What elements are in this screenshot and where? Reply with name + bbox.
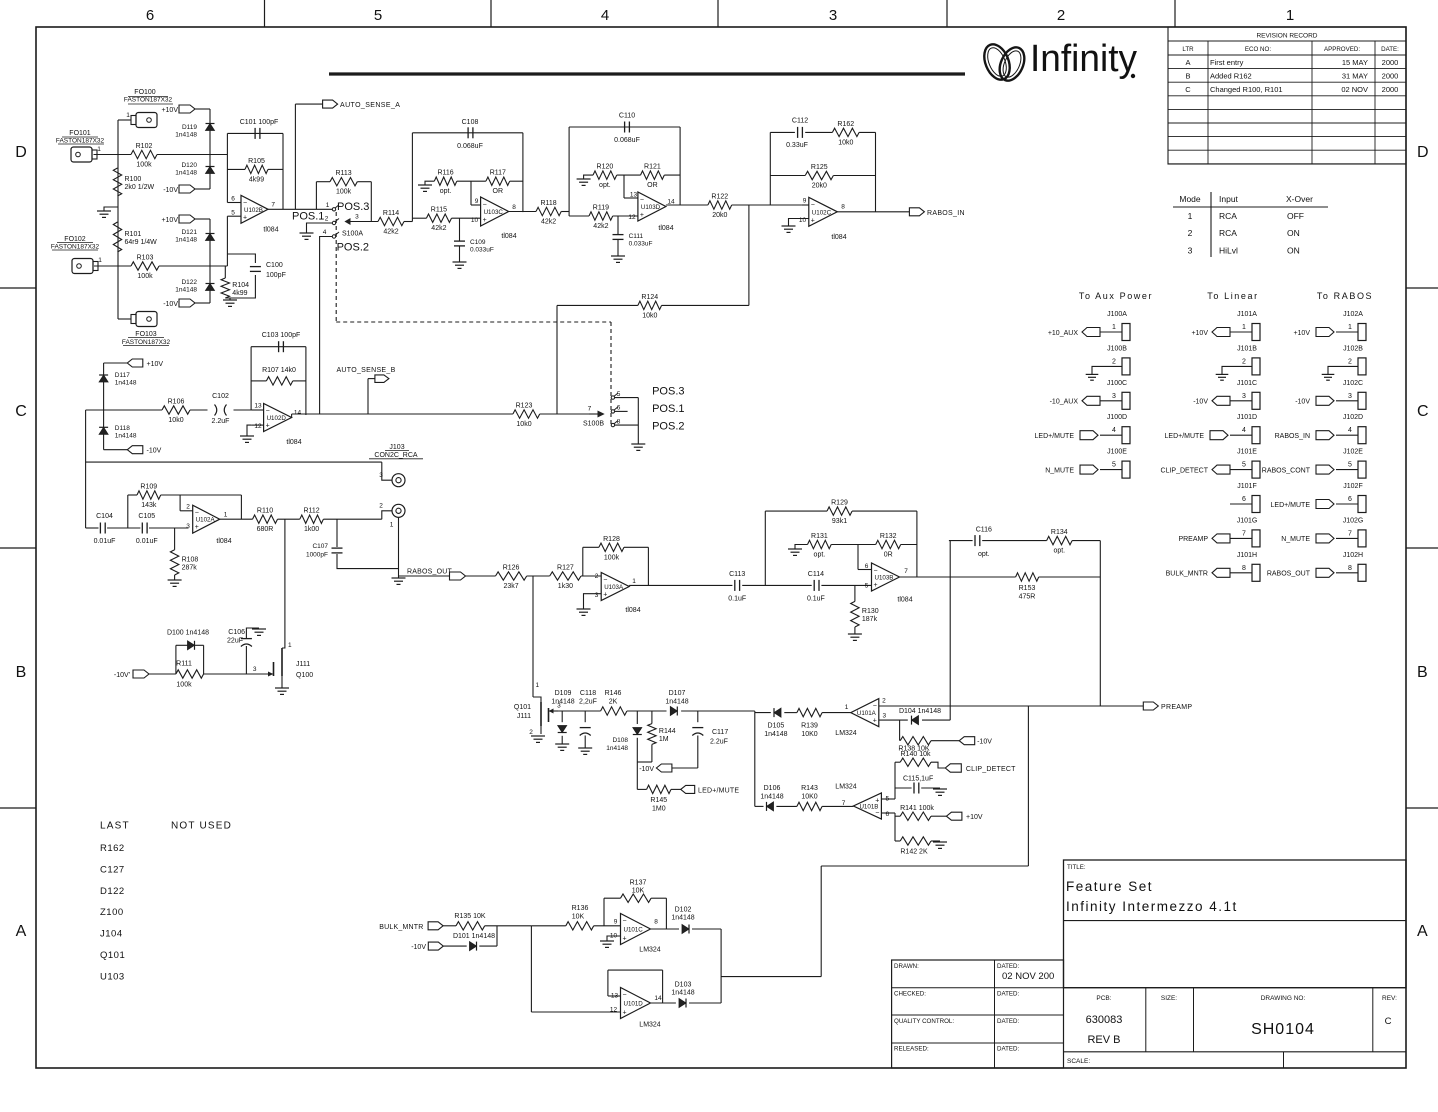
svg-text:PREAMP: PREAMP (1178, 536, 1208, 543)
svg-text:R144: R144 (659, 728, 676, 735)
svg-text:J100C: J100C (1107, 380, 1127, 387)
svg-text:U103: U103 (100, 971, 125, 982)
svg-text:R134: R134 (1051, 529, 1068, 536)
svg-text:opt.: opt. (440, 188, 452, 195)
svg-text:1: 1 (1242, 324, 1246, 331)
svg-text:D103: D103 (675, 981, 692, 988)
svg-text:RABOS_IN: RABOS_IN (1275, 433, 1310, 440)
svg-text:-10V: -10V (639, 766, 654, 773)
svg-text:4: 4 (1112, 427, 1116, 434)
svg-text:LM324: LM324 (835, 784, 857, 791)
svg-text:ECO NO:: ECO NO: (1245, 46, 1271, 53)
svg-text:QUALITY CONTROL:: QUALITY CONTROL: (894, 1018, 954, 1025)
svg-text:U103B: U103B (875, 575, 894, 582)
svg-text:D117: D117 (115, 372, 130, 379)
svg-text:R135 10K: R135 10K (454, 913, 485, 920)
svg-text:R113: R113 (335, 170, 351, 177)
svg-text:HiLvl: HiLvl (1219, 245, 1238, 255)
svg-text:J102F: J102F (1343, 483, 1362, 490)
svg-text:-10V: -10V (977, 739, 992, 746)
svg-text:64r9 1/4W: 64r9 1/4W (125, 239, 158, 246)
svg-text:R142 2K: R142 2K (900, 849, 928, 856)
svg-text:14: 14 (654, 995, 662, 1002)
svg-text:C: C (1185, 85, 1191, 94)
svg-text:POS.3: POS.3 (337, 201, 369, 213)
svg-text:+: + (873, 718, 877, 725)
svg-text:R129: R129 (831, 500, 848, 507)
svg-text:2,2uF: 2,2uF (579, 699, 597, 706)
svg-text:Q100: Q100 (296, 672, 313, 679)
svg-text:C105: C105 (138, 513, 155, 520)
svg-text:1: 1 (126, 112, 130, 119)
svg-text:R128: R128 (603, 536, 620, 543)
svg-text:R108: R108 (182, 556, 199, 563)
svg-text:U102D: U102D (267, 415, 287, 422)
svg-text:C: C (1385, 1016, 1392, 1027)
svg-text:+: + (603, 592, 607, 599)
svg-text:tl084: tl084 (625, 607, 640, 614)
svg-text:PCB:: PCB: (1096, 995, 1111, 1002)
svg-text:R119: R119 (593, 205, 609, 212)
svg-text:1: 1 (288, 642, 292, 649)
svg-text:8: 8 (617, 418, 621, 425)
svg-text:U103A: U103A (604, 584, 624, 591)
svg-text:2: 2 (1348, 358, 1352, 365)
svg-text:U102A: U102A (196, 517, 216, 524)
svg-text:J101C: J101C (1237, 380, 1257, 387)
svg-text:C127: C127 (100, 864, 125, 875)
svg-text:1M0: 1M0 (652, 806, 666, 813)
svg-text:7: 7 (904, 568, 908, 575)
svg-text:1: 1 (98, 257, 102, 264)
svg-text:−: − (483, 202, 487, 209)
svg-text:U102C: U102C (812, 209, 832, 216)
svg-text:12: 12 (254, 423, 262, 430)
svg-text:J102E: J102E (1343, 449, 1363, 456)
svg-text:J102D: J102D (1343, 414, 1363, 421)
svg-text:630083: 630083 (1086, 1014, 1123, 1026)
svg-text:DATE:: DATE: (1381, 46, 1399, 53)
svg-text:15 MAY: 15 MAY (1342, 58, 1368, 67)
svg-text:5: 5 (1112, 462, 1116, 469)
svg-text:J101G: J101G (1237, 517, 1258, 524)
svg-text:20k0: 20k0 (812, 183, 827, 190)
svg-text:POS.3: POS.3 (652, 386, 684, 398)
svg-text:-10_AUX: -10_AUX (1050, 399, 1079, 406)
svg-text:10K0: 10K0 (801, 731, 817, 738)
svg-text:1n4148: 1n4148 (115, 380, 137, 387)
svg-text:5: 5 (1348, 462, 1352, 469)
svg-text:8: 8 (1242, 565, 1246, 572)
svg-text:1n4148: 1n4148 (175, 132, 197, 139)
svg-text:U103C: U103C (484, 209, 504, 216)
svg-text:C101 100pF: C101 100pF (240, 119, 279, 126)
svg-text:-10V: -10V (1295, 399, 1310, 406)
svg-text:0.033uF: 0.033uF (629, 241, 653, 248)
svg-text:1000pF: 1000pF (306, 552, 328, 559)
svg-text:U102B: U102B (244, 207, 263, 214)
svg-text:C111: C111 (629, 233, 644, 240)
svg-text:9: 9 (803, 198, 807, 205)
svg-text:J102G: J102G (1343, 517, 1364, 524)
svg-text:+: + (623, 936, 627, 943)
svg-text:R162: R162 (100, 843, 125, 854)
svg-text:POS.2: POS.2 (337, 242, 369, 254)
svg-text:Feature Set: Feature Set (1066, 879, 1153, 894)
svg-text:−: − (266, 408, 270, 415)
svg-text:287k: 287k (182, 564, 198, 571)
svg-text:100k: 100k (136, 162, 152, 169)
svg-text:10k0: 10k0 (516, 421, 531, 428)
svg-text:C110: C110 (619, 113, 635, 120)
svg-text:N_MUTE: N_MUTE (1281, 536, 1310, 543)
svg-text:+: + (483, 217, 487, 224)
svg-text:FASTON187X32: FASTON187X32 (122, 339, 171, 346)
svg-text:J100B: J100B (1107, 345, 1127, 352)
svg-text:9: 9 (475, 198, 479, 205)
svg-text:20k0: 20k0 (712, 212, 727, 219)
svg-text:DRAWN:: DRAWN: (894, 963, 919, 970)
svg-text:42k2: 42k2 (593, 223, 608, 230)
svg-text:+10V: +10V (966, 814, 983, 821)
svg-text:R114: R114 (383, 210, 399, 217)
svg-text:3: 3 (829, 7, 837, 24)
svg-text:R105: R105 (248, 158, 265, 165)
svg-text:0.068uF: 0.068uF (614, 137, 640, 144)
svg-text:5: 5 (231, 210, 235, 217)
svg-text:−: − (243, 200, 247, 207)
svg-text:FASTON187X32: FASTON187X32 (51, 244, 100, 251)
svg-text:R112: R112 (303, 508, 319, 515)
svg-text:22uF: 22uF (227, 638, 243, 645)
svg-text:2K: 2K (609, 699, 618, 706)
svg-text:RCA: RCA (1219, 228, 1237, 238)
svg-text:2000: 2000 (1382, 72, 1399, 81)
svg-text:J101F: J101F (1237, 483, 1256, 490)
svg-text:R132: R132 (880, 533, 897, 540)
svg-text:0R: 0R (884, 552, 893, 559)
svg-text:D109: D109 (555, 690, 572, 697)
svg-text:10k0: 10k0 (168, 417, 183, 424)
svg-text:4: 4 (323, 229, 327, 236)
svg-text:1n4148: 1n4148 (760, 794, 783, 801)
svg-text:DATED:: DATED: (997, 991, 1020, 998)
svg-text:6: 6 (1348, 496, 1352, 503)
svg-text:3: 3 (379, 472, 383, 479)
svg-text:LAST: LAST (100, 821, 130, 832)
svg-text:5: 5 (374, 7, 382, 24)
svg-text:Infinity Intermezzo 4.1t: Infinity Intermezzo 4.1t (1066, 899, 1238, 914)
svg-text:LED+/MUTE: LED+/MUTE (1271, 502, 1311, 509)
svg-text:4: 4 (601, 7, 609, 24)
svg-text:+: + (195, 524, 199, 531)
svg-text:6: 6 (231, 196, 235, 203)
svg-text:RABOS_OUT: RABOS_OUT (1267, 571, 1311, 578)
svg-text:2k0 1/2W: 2k0 1/2W (125, 184, 155, 191)
svg-text:tl084: tl084 (897, 597, 912, 604)
svg-text:R106: R106 (168, 399, 185, 406)
svg-text:-10V': -10V' (114, 672, 130, 679)
svg-text:10K: 10K (632, 887, 645, 894)
svg-text:C115,1uF: C115,1uF (903, 776, 933, 783)
svg-text:R136: R136 (572, 905, 589, 912)
svg-text:C114: C114 (808, 571, 824, 578)
svg-text:B: B (1185, 72, 1190, 81)
svg-text:D106: D106 (764, 785, 781, 792)
svg-text:D119: D119 (182, 124, 197, 131)
svg-text:2.2uF: 2.2uF (710, 739, 728, 746)
svg-text:10k0: 10k0 (838, 139, 853, 146)
svg-text:1: 1 (1112, 324, 1116, 331)
svg-text:POS.1: POS.1 (292, 211, 324, 223)
svg-text:R124: R124 (641, 294, 658, 301)
svg-text:D100 1n4148: D100 1n4148 (167, 630, 209, 637)
svg-text:R111: R111 (176, 661, 192, 668)
svg-text:23k7: 23k7 (504, 583, 519, 590)
svg-text:R109: R109 (140, 484, 157, 491)
svg-text:RABOS_OUT: RABOS_OUT (407, 569, 452, 576)
svg-text:475R: 475R (1019, 594, 1036, 601)
svg-text:C107: C107 (312, 543, 328, 550)
svg-text:R146: R146 (605, 690, 622, 697)
svg-text:tl084: tl084 (263, 227, 278, 234)
svg-text:10K0: 10K0 (801, 794, 817, 801)
svg-text:R116: R116 (437, 170, 453, 177)
svg-text:FASTON187X32: FASTON187X32 (124, 97, 173, 104)
svg-text:93k1: 93k1 (832, 518, 847, 525)
svg-text:680R: 680R (257, 526, 274, 533)
svg-text:C109: C109 (470, 239, 486, 246)
svg-text:1n4148: 1n4148 (115, 433, 137, 440)
svg-text:J101B: J101B (1237, 345, 1257, 352)
svg-text:To RABOS: To RABOS (1317, 291, 1373, 301)
svg-text:2: 2 (1242, 358, 1246, 365)
svg-text:1n4148: 1n4148 (764, 731, 787, 738)
svg-text:D: D (15, 144, 27, 161)
svg-text:1: 1 (632, 578, 636, 585)
svg-text:opt.: opt. (1053, 548, 1065, 555)
svg-text:LED+/MUTE: LED+/MUTE (1165, 433, 1205, 440)
svg-text:ON: ON (1287, 228, 1300, 238)
svg-text:R130: R130 (862, 608, 879, 615)
svg-text:LED+/MUTE: LED+/MUTE (698, 787, 739, 794)
svg-text:OR: OR (647, 182, 658, 189)
svg-text:R100: R100 (125, 176, 142, 183)
svg-text:B: B (1417, 664, 1428, 681)
svg-text:42k2: 42k2 (431, 225, 446, 232)
svg-text:+: + (640, 212, 644, 219)
svg-text:J100A: J100A (1107, 311, 1127, 318)
svg-text:OR: OR (493, 188, 504, 195)
svg-text:C104: C104 (96, 513, 113, 520)
svg-text:Q101: Q101 (100, 950, 125, 961)
svg-text:R115: R115 (431, 207, 447, 214)
svg-text:FO101: FO101 (69, 130, 91, 137)
svg-text:6: 6 (146, 7, 154, 24)
svg-text:R122: R122 (711, 194, 728, 201)
svg-text:0.068uF: 0.068uF (457, 143, 483, 150)
svg-text:tl084: tl084 (286, 439, 301, 446)
svg-text:REV:: REV: (1382, 995, 1397, 1002)
svg-text:opt.: opt. (599, 182, 611, 189)
svg-text:6: 6 (1242, 496, 1246, 503)
svg-text:APPROVED:: APPROVED: (1324, 46, 1360, 53)
svg-text:U101B: U101B (859, 804, 878, 811)
svg-text:S100B: S100B (583, 421, 604, 428)
svg-text:-10V: -10V (163, 301, 178, 308)
svg-text:C100: C100 (266, 262, 283, 269)
svg-text:−: − (603, 577, 607, 584)
svg-text:R143: R143 (801, 785, 818, 792)
svg-text:4: 4 (1242, 427, 1246, 434)
svg-text:8: 8 (512, 204, 516, 211)
svg-text:REV B: REV B (1087, 1034, 1120, 1046)
svg-text:C106: C106 (228, 629, 245, 636)
svg-text:8: 8 (1348, 565, 1352, 572)
svg-text:tl084: tl084 (658, 225, 673, 232)
svg-text:SCALE:: SCALE: (1067, 1058, 1090, 1065)
svg-text:5: 5 (617, 391, 621, 398)
svg-text:NOT USED: NOT USED (171, 821, 232, 832)
svg-text:8: 8 (654, 919, 658, 926)
svg-text:10: 10 (471, 217, 479, 224)
svg-text:RCA: RCA (1219, 211, 1237, 221)
svg-text:BULK_MNTR: BULK_MNTR (379, 924, 423, 931)
svg-text:1: 1 (326, 202, 330, 209)
svg-text:R102: R102 (136, 143, 153, 150)
svg-text:7: 7 (842, 800, 846, 807)
svg-text:42k2: 42k2 (383, 229, 398, 236)
svg-text:C118: C118 (580, 690, 596, 697)
svg-text:TITLE:: TITLE: (1067, 864, 1086, 871)
svg-text:1k30: 1k30 (558, 583, 573, 590)
svg-text:3: 3 (595, 592, 599, 599)
svg-text:U103D: U103D (641, 204, 661, 211)
svg-text:RABOS_CONT: RABOS_CONT (1262, 467, 1311, 474)
svg-text:D104 1n4148: D104 1n4148 (899, 708, 941, 715)
svg-text:tl084: tl084 (831, 234, 846, 241)
svg-text:02 NOV 200: 02 NOV 200 (1002, 971, 1054, 982)
svg-text:DRAWING NO:: DRAWING NO: (1261, 995, 1306, 1002)
svg-text:D105: D105 (768, 723, 785, 730)
svg-text:+10_AUX: +10_AUX (1048, 330, 1078, 337)
svg-text:RELEASED:: RELEASED: (894, 1046, 929, 1053)
svg-text:R118: R118 (540, 200, 556, 207)
svg-text:D121: D121 (181, 229, 197, 236)
svg-text:6: 6 (886, 811, 890, 818)
svg-text:R131: R131 (811, 533, 828, 540)
svg-text:POS.2: POS.2 (652, 420, 684, 432)
svg-text:R101: R101 (125, 231, 142, 238)
svg-text:7: 7 (1348, 530, 1352, 537)
svg-text:2: 2 (379, 503, 383, 510)
svg-text:S100A: S100A (342, 231, 363, 238)
svg-text:C103 100pF: C103 100pF (262, 332, 301, 339)
svg-text:2: 2 (595, 573, 599, 580)
svg-text:100pF: 100pF (266, 272, 286, 279)
svg-text:+10V: +10V (1191, 330, 1208, 337)
svg-text:J102H: J102H (1343, 552, 1363, 559)
svg-text:R162: R162 (837, 121, 854, 128)
svg-text:LM324: LM324 (835, 730, 857, 737)
svg-text:Input: Input (1219, 194, 1239, 204)
svg-text:BULK_MNTR: BULK_MNTR (1166, 571, 1208, 578)
svg-text:+10V: +10V (1293, 330, 1310, 337)
svg-text:First entry: First entry (1210, 58, 1244, 67)
svg-text:2: 2 (529, 729, 533, 736)
svg-text:OFF: OFF (1287, 211, 1304, 221)
svg-text:J101E: J101E (1237, 449, 1257, 456)
svg-text:−: − (874, 568, 878, 575)
svg-text:FO102: FO102 (64, 236, 86, 243)
svg-text:1n4148: 1n4148 (671, 989, 694, 996)
svg-text:C112: C112 (792, 118, 808, 125)
svg-text:tl084: tl084 (501, 233, 516, 240)
svg-text:8: 8 (841, 204, 845, 211)
svg-text:Added R162: Added R162 (1210, 72, 1252, 81)
svg-text:N_MUTE: N_MUTE (1045, 467, 1074, 474)
svg-text:1n4148: 1n4148 (606, 745, 628, 752)
svg-text:DATED:: DATED: (997, 1018, 1020, 1025)
svg-text:0.01uF: 0.01uF (136, 538, 158, 545)
svg-text:42k2: 42k2 (541, 219, 556, 226)
svg-text:2000: 2000 (1382, 58, 1399, 67)
svg-text:J111: J111 (296, 661, 310, 668)
svg-text:J102A: J102A (1343, 311, 1363, 318)
svg-text:B: B (16, 664, 27, 681)
svg-text:1: 1 (97, 146, 101, 153)
svg-text:4k99: 4k99 (249, 176, 264, 183)
svg-text:Mode: Mode (1179, 194, 1201, 204)
svg-text:DATED:: DATED: (997, 963, 1020, 970)
svg-text:J100E: J100E (1107, 449, 1127, 456)
svg-text:2000: 2000 (1382, 85, 1399, 94)
svg-text:0.033uF: 0.033uF (470, 247, 494, 254)
svg-text:1n4148: 1n4148 (551, 699, 574, 706)
svg-text:R140 10k: R140 10k (901, 751, 931, 758)
svg-text:ON: ON (1287, 245, 1300, 255)
svg-text:1n4148: 1n4148 (175, 237, 197, 244)
svg-text:0.1uF: 0.1uF (807, 596, 825, 603)
svg-text:+10V: +10V (161, 217, 178, 224)
svg-text:12: 12 (628, 214, 636, 221)
svg-text:3: 3 (253, 666, 257, 673)
svg-text:R117: R117 (490, 170, 506, 177)
svg-text:13: 13 (254, 403, 262, 410)
svg-text:C102: C102 (212, 393, 229, 400)
svg-text:SIZE:: SIZE: (1161, 995, 1177, 1002)
svg-text:opt.: opt. (978, 551, 990, 558)
svg-text:1: 1 (1348, 324, 1352, 331)
svg-text:J101A: J101A (1237, 311, 1257, 318)
svg-text:R145: R145 (650, 797, 667, 804)
svg-text:A: A (1417, 923, 1428, 940)
svg-text:5: 5 (865, 583, 869, 590)
svg-text:J104: J104 (100, 929, 123, 940)
svg-text:1k00: 1k00 (304, 526, 319, 533)
svg-text:R126: R126 (503, 565, 520, 572)
svg-text:187k: 187k (862, 616, 878, 623)
svg-text:J103: J103 (389, 444, 404, 451)
svg-text:C: C (15, 403, 27, 420)
svg-text:4k99: 4k99 (232, 290, 247, 297)
svg-text:R107 14k0: R107 14k0 (262, 367, 296, 374)
svg-text:CHECKED:: CHECKED: (894, 991, 926, 998)
svg-text:1: 1 (536, 682, 540, 689)
svg-text:1: 1 (1286, 7, 1294, 24)
svg-text:R103: R103 (137, 255, 154, 262)
svg-text:J100D: J100D (1107, 414, 1127, 421)
